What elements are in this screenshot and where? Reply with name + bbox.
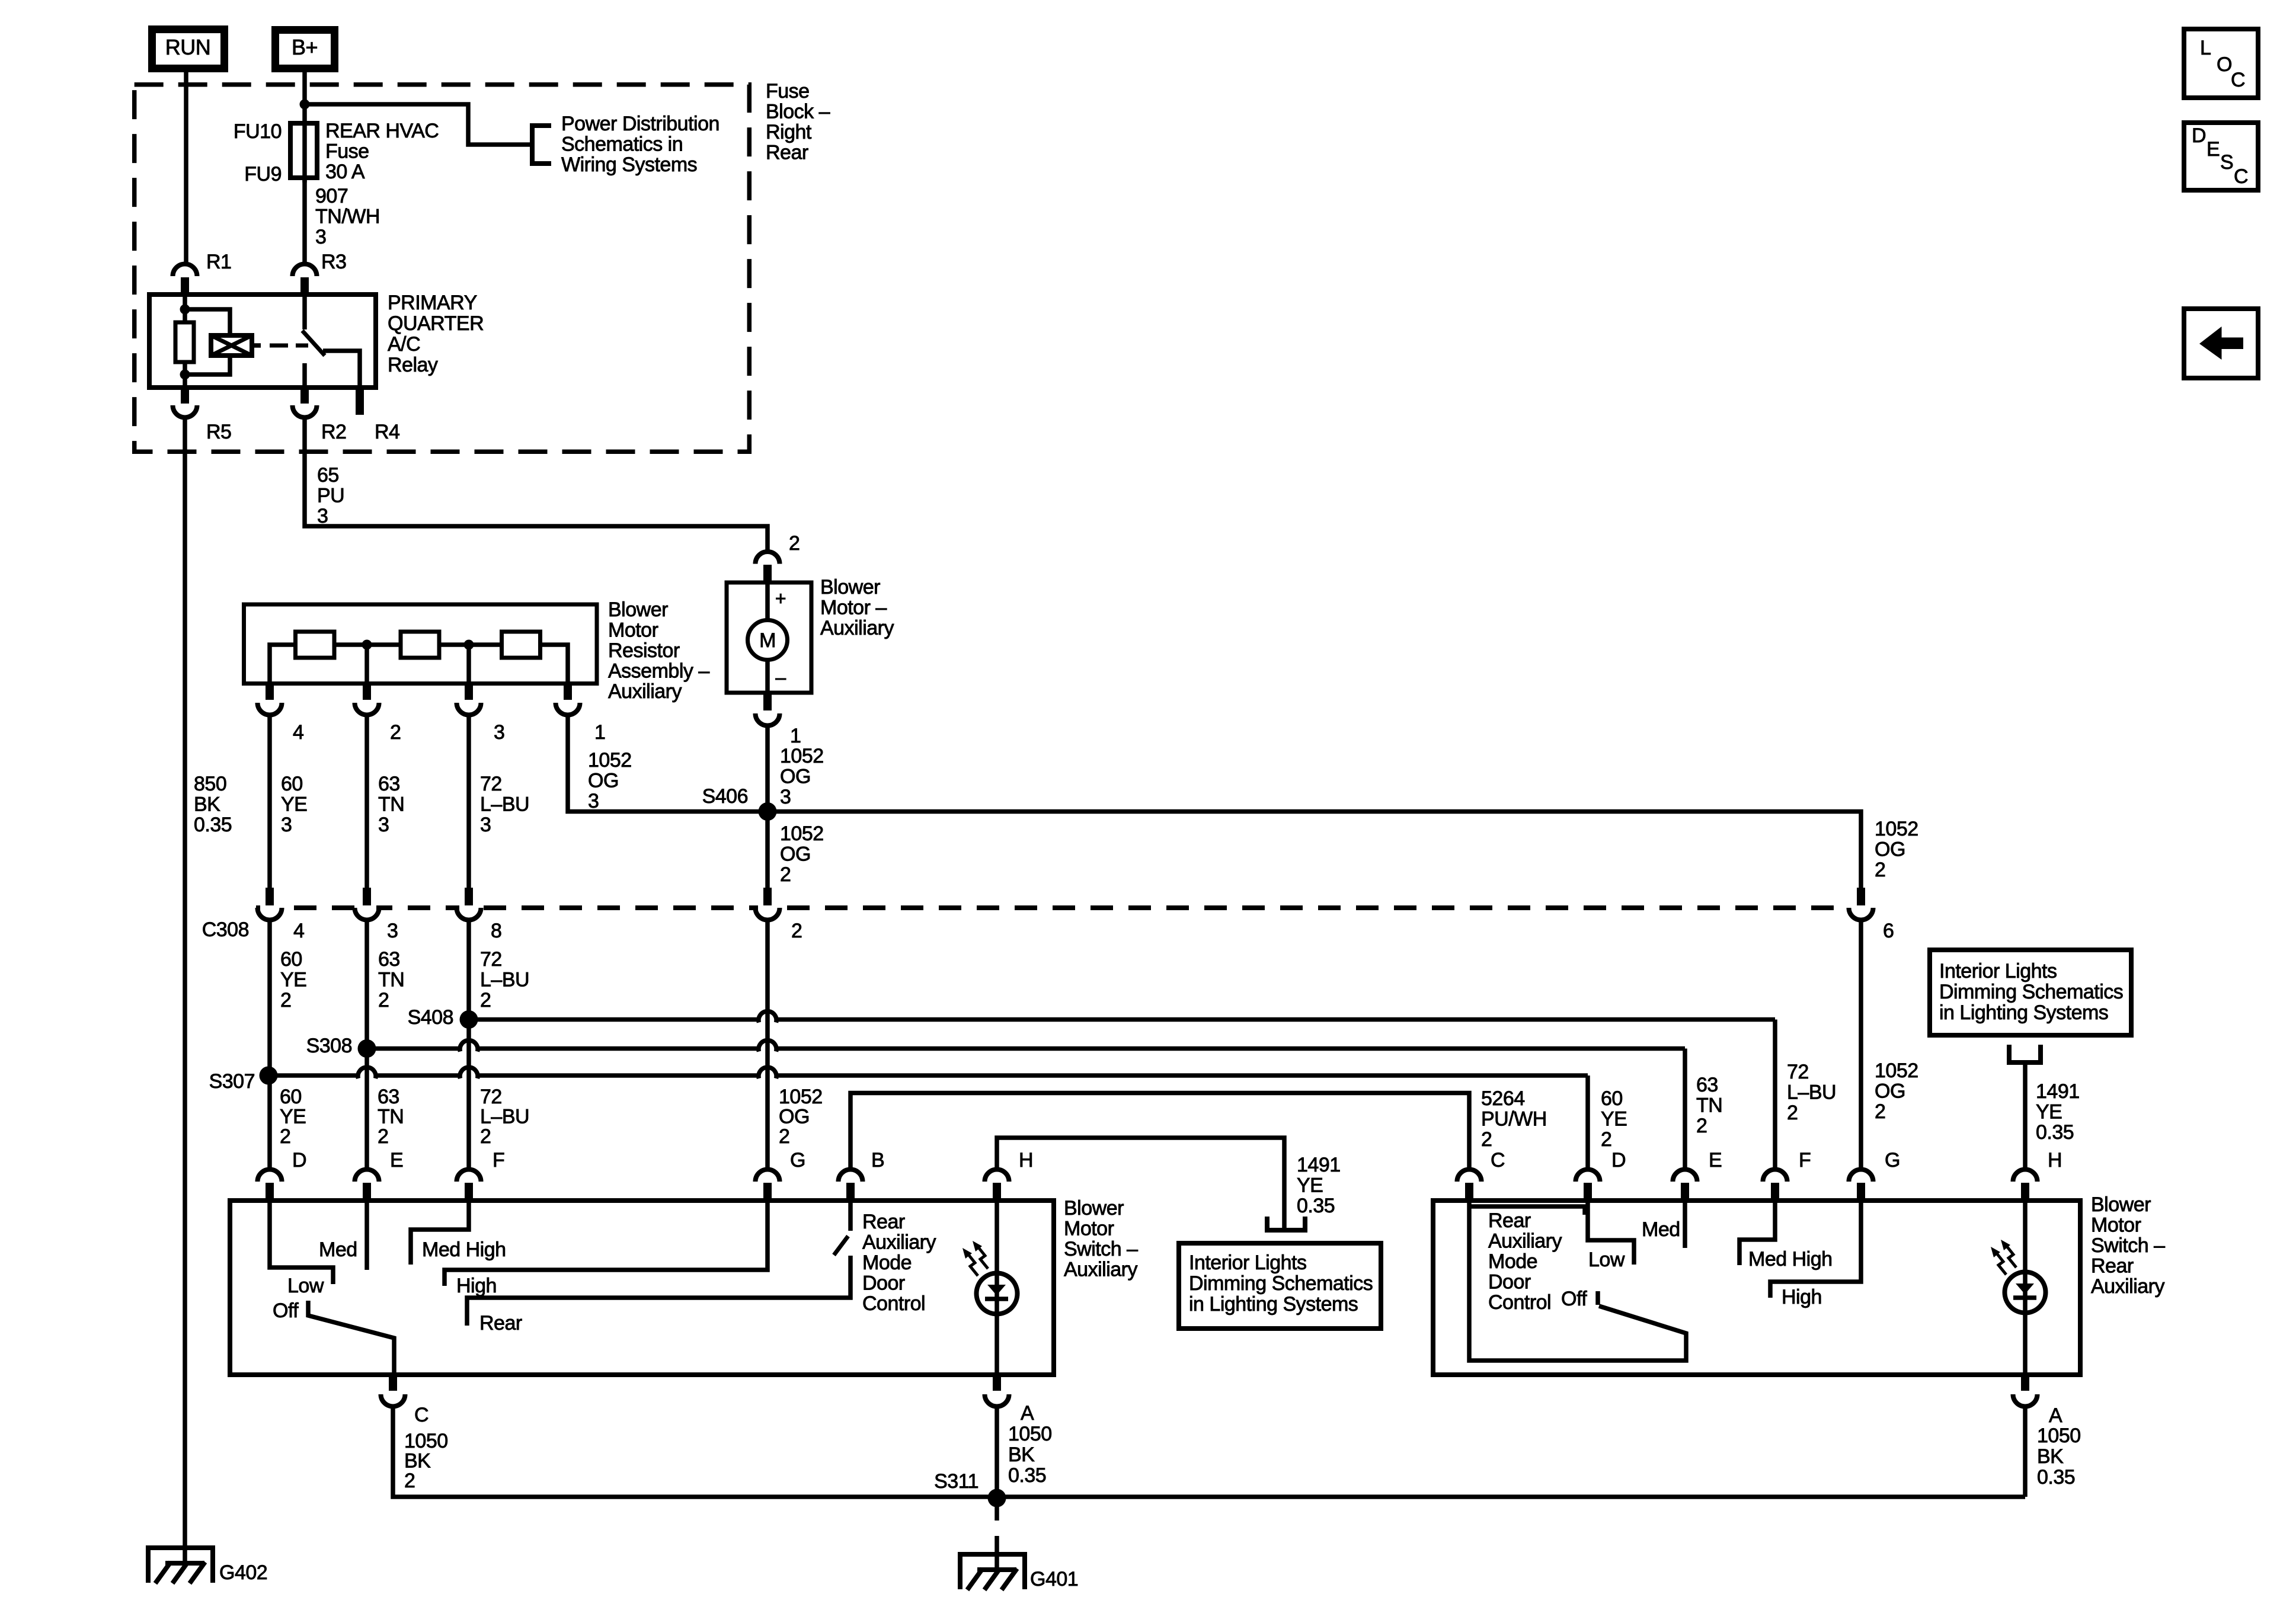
svg-text:Switch –: Switch – [1064,1238,1138,1260]
svg-text:1050: 1050 [1008,1423,1052,1445]
wire relay switch to R4 [323,351,360,388]
svg-text:4: 4 [293,920,304,942]
LED arrows (left switch) [968,1247,988,1276]
wire 72 L-BU 2 to splice S408 [466,920,471,1168]
svg-text:2: 2 [280,989,291,1012]
wire pin H through indicator (left) [994,1201,999,1375]
svg-text:0.35: 0.35 [1297,1195,1335,1217]
resistor inside relay [175,322,194,362]
svg-text:BK: BK [194,793,220,816]
svg-text:Blower: Blower [2091,1193,2151,1216]
wire coil loop bottom [185,356,230,375]
svg-text:RUN: RUN [165,35,211,59]
connector C308 pin 4 [260,903,279,918]
connector pin H of left switch [984,1169,1009,1182]
wire pin G to High contact (right switch) [1770,1201,1861,1298]
wire hop over 1052 OG at S307 run [759,1067,776,1078]
svg-text:1491: 1491 [1297,1154,1341,1176]
svg-text:Dimming Schematics: Dimming Schematics [1189,1272,1373,1295]
svg-text:72: 72 [480,1086,502,1108]
svg-text:Control: Control [1488,1291,1551,1314]
svg-text:Rear: Rear [479,1312,522,1334]
svg-text:High: High [456,1275,497,1297]
bracket to Power Distribution Schematics reference [532,126,551,164]
wire resistor pin1 1052 OG 3 to splice S406 [568,715,760,812]
svg-text:Door: Door [862,1272,905,1295]
svg-text:2: 2 [404,1470,415,1492]
svg-text:Blower: Blower [608,598,668,621]
svg-text:3: 3 [494,721,504,744]
svg-text:0.35: 0.35 [2036,1121,2074,1144]
svg-text:H: H [1019,1149,1033,1172]
wire 1052 OG 2 below S406 [765,812,770,888]
svg-text:1: 1 [594,721,605,744]
wire 1052 OG 2 to switch pin G (right) [1859,920,1863,1168]
svg-text:L–BU: L–BU [480,969,529,991]
svg-text:PRIMARY: PRIMARY [388,292,477,314]
svg-text:FU10: FU10 [234,120,282,143]
svg-text:Motor –: Motor – [820,597,887,619]
svg-text:E: E [2207,138,2220,161]
svg-text:3: 3 [387,920,398,942]
wire resistor tap 2 [364,645,369,684]
pin R4 stub [356,388,364,415]
svg-text:Right: Right [766,121,812,143]
svg-text:2: 2 [378,989,389,1012]
svg-text:in Lighting Systems: in Lighting Systems [1939,1001,2108,1024]
node RUN (ignition feed box) [152,30,225,69]
LED indicator (right switch) [2005,1272,2046,1313]
svg-text:1052: 1052 [780,745,824,767]
wire hop over 63 TN at S307 run [358,1067,376,1078]
fuse FU10/FU9 REAR HVAC 30 A [290,123,317,178]
svg-text:A/C: A/C [388,333,420,356]
relay actuator dashed link [270,344,308,348]
svg-text:1052: 1052 [780,822,824,845]
wire resistor tap 3 [466,645,471,684]
svg-text:3: 3 [588,790,599,812]
connector pin G of left switch [756,1169,780,1182]
svg-text:TN: TN [378,1106,404,1128]
svg-text:YE: YE [1601,1108,1627,1131]
blower motor - auxiliary outline [727,582,811,693]
blower motor switch - auxiliary outline [230,1201,1054,1375]
svg-text:R3: R3 [321,251,346,273]
fuse block - right rear (dashed outline) [135,85,750,452]
svg-text:+: + [775,588,786,609]
svg-text:E: E [390,1149,403,1172]
svg-text:Control: Control [862,1292,925,1315]
svg-text:Schematics in: Schematics in [561,133,683,156]
svg-text:YE: YE [280,1106,306,1128]
svg-text:A: A [1021,1402,1034,1425]
svg-text:3: 3 [480,814,491,836]
svg-text:Fuse: Fuse [766,80,810,103]
svg-text:Med: Med [1642,1218,1680,1241]
svg-text:S307: S307 [209,1070,255,1093]
svg-text:Wiring Systems: Wiring Systems [561,153,697,176]
svg-text:OG: OG [1875,838,1905,861]
wire hop over 72 L-BU at S308 run [460,1041,478,1052]
svg-text:2: 2 [780,863,791,886]
svg-text:1050: 1050 [2037,1425,2081,1447]
svg-text:2: 2 [789,532,800,555]
svg-text:C: C [414,1404,428,1426]
svg-text:30 A: 30 A [325,161,365,183]
wire relay switch common from R3 [302,295,307,329]
svg-text:PU: PU [317,485,344,507]
svg-text:F: F [1799,1149,1811,1172]
connector C308 dashed line [256,905,1849,910]
svg-text:63: 63 [1696,1074,1718,1096]
svg-text:F: F [493,1149,504,1172]
svg-text:O: O [2217,53,2232,76]
svg-text:907: 907 [315,185,348,207]
svg-text:Low: Low [287,1275,324,1297]
blower motor switch - rear auxiliary outline [1433,1201,2080,1375]
wire mode door contact to Rear contact (left) [467,1256,850,1326]
svg-text:TN/WH: TN/WH [315,206,380,228]
svg-text:60: 60 [280,1086,302,1108]
svg-text:2: 2 [1787,1102,1798,1124]
legend box back-arrow [2184,309,2258,378]
svg-text:D: D [2192,124,2206,147]
svg-text:C308: C308 [202,918,249,941]
wire left switch A to S311 [994,1406,999,1497]
connector pin A of right switch (bottom) [2021,1375,2029,1391]
svg-text:E: E [1709,1149,1722,1172]
svg-text:A: A [2049,1404,2062,1427]
svg-text:Med: Med [319,1238,357,1261]
junction dot on B+ feed [300,100,310,110]
svg-text:4: 4 [293,721,303,744]
svg-text:3: 3 [281,814,292,836]
wire S311 to ground G401 [994,1506,999,1521]
svg-text:3: 3 [780,786,791,808]
splice S311 [988,1489,1006,1507]
wire 1050 BK ground bus [393,1406,2025,1497]
svg-text:0.35: 0.35 [194,814,232,836]
resistor element 2 [401,632,439,658]
reference box Interior Lights Dimming Schematics (left) [1179,1243,1381,1329]
wire pin H through indicator (right) [2023,1201,2028,1375]
svg-text:BK: BK [1008,1443,1035,1466]
svg-text:Motor: Motor [2091,1214,2141,1237]
svg-text:L–BU: L–BU [480,1106,529,1128]
svg-text:YE: YE [1297,1174,1323,1197]
switch blade Off to common (left switch) [308,1301,394,1375]
junction dot relay coil bottom [180,370,190,380]
svg-text:63: 63 [378,1086,399,1108]
svg-text:OG: OG [780,766,811,788]
svg-text:0.35: 0.35 [1008,1464,1046,1487]
svg-text:FU9: FU9 [244,163,282,185]
svg-text:2: 2 [1481,1128,1492,1151]
connector C308 pin 2 [758,903,777,918]
svg-text:G402: G402 [219,1561,267,1584]
LED indicator (left switch) [977,1273,1018,1314]
svg-text:63: 63 [378,948,400,971]
svg-text:Mode: Mode [1488,1250,1537,1273]
svg-text:C: C [2234,165,2248,188]
splice S308 [358,1039,376,1058]
wire 63 TN 2 to splice S308 [364,920,369,1168]
svg-text:2: 2 [791,920,802,942]
wire resistor bus [270,645,568,684]
wire S308 to right switch pin E [367,1046,459,1051]
svg-text:PU/WH: PU/WH [1481,1108,1547,1131]
svg-text:65: 65 [317,464,339,486]
svg-text:Door: Door [1488,1271,1531,1294]
wire relay coil branch from R1 [183,295,187,324]
mode door switch blade (left) [834,1236,848,1255]
svg-text:2: 2 [480,989,491,1012]
connector pin B of left switch [839,1169,863,1182]
svg-text:G: G [1885,1149,1900,1172]
svg-text:C: C [2231,69,2245,91]
svg-text:BK: BK [2037,1445,2064,1468]
svg-text:OG: OG [1875,1080,1905,1103]
connector pin A of left switch (bottom) [993,1375,1001,1391]
connector pin F of left switch [457,1169,481,1182]
svg-text:Fuse: Fuse [325,140,369,163]
svg-text:Dimming Schematics: Dimming Schematics [1939,981,2123,1003]
svg-text:5264: 5264 [1481,1087,1525,1110]
svg-text:Low: Low [1588,1249,1625,1271]
svg-text:REAR HVAC: REAR HVAC [325,120,439,142]
svg-text:YE: YE [2036,1101,2062,1124]
svg-text:2: 2 [280,1125,290,1148]
svg-text:OG: OG [779,1106,810,1128]
svg-text:60: 60 [280,948,302,971]
wire coil loop top [185,309,230,335]
junction dot resistor bus B [464,640,474,650]
svg-text:High: High [1782,1286,1822,1308]
connector pin F of right switch [1763,1169,1787,1182]
svg-text:H: H [2048,1149,2062,1172]
svg-text:Motor: Motor [1064,1218,1114,1240]
svg-text:3: 3 [378,814,389,836]
wire from B+ junction to power distribution reference [305,104,530,145]
resistor element 1 [296,632,335,658]
svg-text:Rear: Rear [1488,1209,1531,1232]
junction dot resistor bus A [362,640,372,650]
wire pin E Med contact (left switch) [364,1201,369,1270]
svg-text:R2: R2 [321,421,346,443]
connector pin 2 of blower motor [756,552,780,564]
svg-text:R1: R1 [206,251,231,273]
svg-text:2: 2 [779,1125,789,1148]
svg-text:R4: R4 [375,421,399,443]
svg-text:L: L [2200,37,2211,59]
svg-text:8: 8 [491,920,501,942]
svg-text:72: 72 [1787,1061,1809,1083]
wire 1491 YE 0.35 to right switch pin H [2023,1062,2028,1168]
svg-text:1: 1 [790,725,801,747]
svg-text:Med High: Med High [1748,1248,1833,1270]
wire 63 TN 3 [364,715,369,888]
svg-text:Rear: Rear [862,1211,905,1233]
svg-text:Assembly –: Assembly – [608,660,709,683]
ground G401 [960,1554,1025,1589]
legend box LOC [2184,29,2258,98]
svg-text:Interior Lights: Interior Lights [1939,960,2057,982]
svg-text:Auxiliary: Auxiliary [2091,1275,2164,1298]
wire hop over 72 L-BU at S307 run [460,1067,478,1078]
connector R3 [293,264,317,277]
wire 1491 YE 0.35 from left switch H to dimming reference [997,1138,1284,1230]
svg-text:G: G [790,1149,805,1172]
relay coil symbol [211,335,252,356]
svg-text:2: 2 [378,1125,388,1148]
svg-text:Mode: Mode [862,1251,912,1274]
svg-text:3: 3 [317,505,328,527]
connector pin E of left switch [355,1170,379,1182]
connector C308 pin 8 [459,903,478,918]
connector pin 1 of resistor assembly [564,684,572,700]
svg-text:–: – [775,667,786,688]
svg-text:in Lighting Systems: in Lighting Systems [1189,1293,1358,1315]
svg-text:60: 60 [1601,1087,1623,1110]
splice S408 [460,1010,478,1029]
svg-text:Rear: Rear [2091,1255,2134,1278]
svg-text:Resistor: Resistor [608,639,680,662]
splice S406 [759,802,777,821]
svg-text:S311: S311 [934,1470,978,1493]
svg-text:Motor: Motor [608,619,658,642]
svg-text:2: 2 [480,1125,491,1148]
ground G402 [148,1548,213,1583]
connector pin D of right switch [1576,1169,1600,1182]
svg-text:R5: R5 [206,421,231,443]
LED arrows (right switch) [1996,1246,2016,1275]
svg-text:OG: OG [588,770,619,792]
svg-text:Med High: Med High [422,1238,506,1261]
wire relay resistor to bottom junction [183,361,187,388]
svg-text:Blower: Blower [1064,1197,1124,1219]
svg-text:QUARTER: QUARTER [388,312,484,335]
svg-text:Switch –: Switch – [2091,1234,2165,1257]
svg-text:YE: YE [280,969,306,991]
wire pin E Med contact (right switch) [1683,1201,1687,1248]
svg-text:2: 2 [1696,1115,1707,1137]
connector pin C of left switch (bottom) [389,1375,397,1391]
connector R1 [173,264,197,276]
svg-text:TN: TN [378,969,404,991]
connector pin 4 of resistor assembly [266,684,274,700]
reference box Interior Lights Dimming Schematics (right) [1930,950,2131,1035]
svg-text:D: D [1611,1149,1626,1172]
wire RUN feed into fuse block [184,68,188,264]
wire 5264 PU/WH 2 from left switch B to right control C [850,1093,1469,1168]
mode door control vane (right) [1469,1201,1686,1361]
wire B+ feed into fuse block [302,68,307,183]
svg-text:Auxiliary: Auxiliary [1064,1259,1137,1281]
svg-text:Off: Off [273,1299,299,1322]
svg-text:Off: Off [1561,1288,1587,1310]
svg-text:850: 850 [194,773,226,795]
wire motor internal top [765,582,770,622]
svg-text:3: 3 [315,226,326,248]
wire 65 PU 3 from R2 to blower motor [305,418,768,551]
wire 72 L-BU 3 [466,715,471,888]
svg-text:60: 60 [281,773,303,795]
connector pin 2 of resistor assembly [363,684,371,700]
svg-text:Auxiliary: Auxiliary [820,617,894,639]
svg-text:OG: OG [780,843,811,866]
wire motor internal bottom [765,659,770,693]
connector R2 [300,388,309,404]
svg-text:2: 2 [1875,859,1885,881]
wire S408 to right switch pin F [469,1017,757,1022]
connector pin E of right switch [1673,1169,1697,1182]
connector pin H of right switch [2013,1169,2038,1182]
wire fuse to relay pin R3 (907 TN/WH 3) [302,178,307,264]
svg-text:Auxiliary: Auxiliary [862,1231,936,1254]
splice S307 [260,1067,278,1085]
svg-text:72: 72 [480,773,502,795]
svg-text:G401: G401 [1030,1568,1078,1590]
bracket below interior lights reference (right) [2009,1045,2041,1062]
svg-text:S408: S408 [408,1006,453,1029]
motor symbol M [748,620,788,660]
svg-text:72: 72 [480,948,502,971]
coil actuator stub [252,343,261,348]
wire hop over 1052 OG at S408 run [759,1012,776,1023]
wire pin B mode door input [848,1201,853,1231]
svg-text:2: 2 [1601,1128,1611,1151]
svg-text:2: 2 [390,721,401,744]
svg-text:S406: S406 [702,785,748,808]
legend box DESC [2184,123,2258,190]
wire 1052 OG 2 from S406 to C308 pin 6 [768,812,1861,888]
svg-text:YE: YE [281,793,307,816]
svg-text:0.35: 0.35 [2037,1466,2075,1489]
svg-text:Rear: Rear [766,142,808,164]
svg-text:S308: S308 [306,1035,352,1057]
wire relay switch lower contact to R2 [302,363,307,388]
svg-text:1052: 1052 [1875,818,1918,840]
wire pin G to High contact (left switch) [445,1201,768,1286]
svg-text:C: C [1491,1149,1505,1172]
wire 60 YE 3 [267,715,272,888]
wire S307 to right switch pin D [268,1073,357,1078]
svg-text:6: 6 [1883,920,1894,942]
svg-text:Auxiliary: Auxiliary [1488,1230,1562,1253]
relay switch blade [302,331,325,356]
svg-text:D: D [292,1149,306,1172]
svg-text:L–BU: L–BU [480,793,529,816]
svg-text:BK: BK [404,1450,431,1473]
wire pin D to Low contact (left switch) [270,1201,333,1284]
node B+ (battery feed box) [276,30,335,69]
wire pin F to Med High contact (left switch) [411,1201,469,1265]
connector pin 3 of resistor assembly [465,684,473,700]
junction dot relay coil top [180,305,190,315]
connector pin C of right switch [1457,1169,1482,1182]
svg-text:2: 2 [1875,1100,1885,1123]
wire pin D to Low contact (right switch) [1588,1201,1634,1265]
svg-text:Auxiliary: Auxiliary [608,680,682,703]
svg-text:Interior Lights: Interior Lights [1189,1251,1307,1274]
svg-text:L–BU: L–BU [1787,1081,1836,1104]
wire hop over 1052 OG at S308 run [759,1041,776,1052]
wire pin F to Med High contact (right switch) [1739,1201,1775,1265]
svg-text:Blower: Blower [820,576,880,598]
connector pin D of left switch [258,1169,282,1182]
svg-text:Relay: Relay [388,354,438,376]
svg-text:1052: 1052 [1875,1060,1918,1082]
